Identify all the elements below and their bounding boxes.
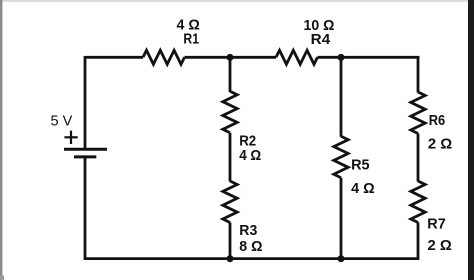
wire R2 to R3 <box>229 133 232 182</box>
svg-text:8 Ω: 8 Ω <box>239 239 263 255</box>
wire node A down to R2 <box>229 57 232 92</box>
junction node B top <box>338 54 345 61</box>
svg-text:R5: R5 <box>351 157 370 173</box>
svg-text:R6: R6 <box>429 113 446 129</box>
wire top-left horizontal from battery branch to R1 <box>85 56 143 59</box>
svg-text:4 Ω: 4 Ω <box>351 181 375 197</box>
svg-text:2 Ω: 2 Ω <box>428 238 453 254</box>
svg-text:R3: R3 <box>239 223 257 239</box>
wire R7 to bottom rail <box>417 223 420 259</box>
junction node D bottom <box>338 255 345 262</box>
svg-text:R1: R1 <box>183 31 199 47</box>
wire left branch battery negative lead <box>84 158 87 260</box>
wire R3 to bottom rail <box>229 223 232 259</box>
junction node C bottom <box>227 255 234 262</box>
wire left branch battery positive lead <box>84 56 87 148</box>
svg-text:4 Ω: 4 Ω <box>239 148 261 164</box>
resistor R7 <box>411 181 425 223</box>
wire top-right corner down to R6 <box>417 56 420 93</box>
resistor R1 <box>143 50 185 64</box>
svg-text:R4: R4 <box>311 32 331 48</box>
resistor R2 <box>223 91 237 133</box>
resistor R6 <box>411 92 425 134</box>
wire R6 to R7 <box>417 134 420 182</box>
battery V1 positive plate <box>64 148 107 151</box>
svg-text:R7: R7 <box>427 216 446 232</box>
svg-text:2 Ω: 2 Ω <box>428 136 453 152</box>
resistor R4 <box>276 50 318 64</box>
wire node B down to R5 <box>340 57 343 136</box>
svg-text:5 V: 5 V <box>51 113 73 130</box>
resistor R3 <box>223 181 237 223</box>
junction node A top <box>227 54 234 61</box>
resistor R5 <box>334 136 348 178</box>
wire R4 to top-right corner <box>318 56 420 59</box>
wire bottom rail <box>84 257 420 260</box>
wire R5 to bottom rail <box>340 178 343 259</box>
battery V1 plus sign <box>64 131 77 144</box>
wire R1 to node A <box>185 56 277 59</box>
battery V1 negative plate <box>74 155 96 158</box>
